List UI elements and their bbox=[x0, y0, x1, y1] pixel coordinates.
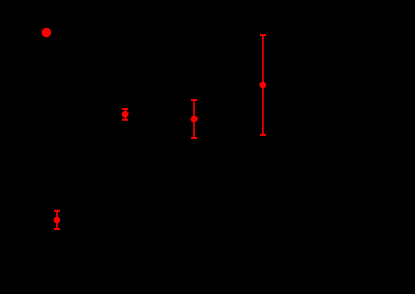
error bar E2 bbox=[122, 109, 128, 120]
data point P2 bbox=[122, 111, 129, 118]
error bar E5 bbox=[54, 211, 60, 229]
P4 left edge bump bbox=[258, 83, 261, 85]
P3 right edge bump bbox=[196, 117, 199, 119]
data point P5 bbox=[54, 217, 61, 224]
P5 right edge bump bbox=[58, 219, 61, 221]
error bar E3 bbox=[191, 100, 197, 138]
data point P3 bbox=[191, 116, 198, 123]
error bar E4 bbox=[260, 35, 266, 135]
P2 right edge bump bbox=[127, 113, 130, 115]
data point P4 bbox=[260, 82, 267, 89]
data point P1 (large marker, no visible error bar) bbox=[42, 28, 52, 38]
